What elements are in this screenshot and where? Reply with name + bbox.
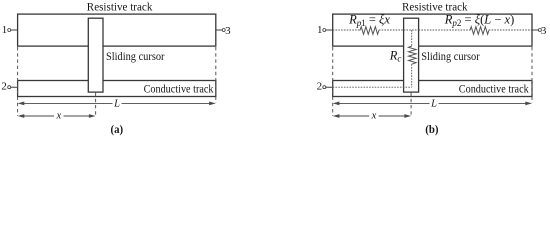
terminal 1 (a): pin label, circle, wire: [2, 24, 18, 36]
svg-text:Conductive track: Conductive track: [459, 81, 529, 95]
svg-text:1: 1: [317, 24, 323, 36]
svg-text:Resistive track: Resistive track: [402, 0, 468, 14]
svg-text:L: L: [113, 99, 120, 110]
svg-text:Sliding cursor: Sliding cursor: [421, 49, 480, 63]
terminal 2 (a): pin label, circle, wire: [1, 81, 17, 93]
dimension L (b): line, arrows, label: [333, 99, 532, 110]
resistive track body (a): [18, 14, 216, 46]
dotted net segment: Rp1 to cursor (b): [379, 29, 404, 31]
dotted net segment: terminal1 to Rp1 (b): [333, 29, 360, 31]
resistor Rp1 (b): [360, 27, 379, 35]
projection dashed line right edge (a): [215, 47, 217, 103]
svg-text:1: 1: [2, 24, 8, 36]
dotted net segment: cursor to Rp2 (b): [419, 29, 470, 31]
conductive track body (b): [333, 81, 532, 97]
dotted net segment: terminal2 to cursor junction (b): [333, 86, 412, 88]
svg-text:(b): (b): [425, 124, 438, 136]
dotted net segment: across cursor (b): [404, 29, 419, 31]
dimension x (a): line, arrows, label: [18, 111, 96, 122]
svg-text:Conductive track: Conductive track: [144, 81, 214, 95]
svg-text:2: 2: [1, 81, 7, 93]
svg-text:3: 3: [541, 25, 547, 37]
svg-text:x: x: [55, 111, 61, 122]
projection dashed line left edge (a): [17, 47, 19, 116]
terminal 2 (b): pin label, circle, wire: [317, 81, 333, 93]
svg-text:3: 3: [225, 25, 231, 37]
dotted net segment: cursor junction down to Rc (b): [411, 30, 413, 46]
svg-text:Sliding cursor: Sliding cursor: [106, 49, 165, 63]
dotted net segment: Rp2 to right edge (b): [489, 29, 532, 31]
resistor Rc (b): [409, 46, 417, 64]
svg-text:L: L: [430, 99, 437, 110]
svg-text:Rc: Rc: [389, 48, 402, 63]
terminal 1 (b): pin label, circle, wire: [317, 24, 333, 36]
sliding cursor body (a): [88, 18, 103, 92]
svg-text:x: x: [371, 111, 377, 122]
svg-text:2: 2: [317, 81, 323, 93]
dimension x (b): line, arrows, label: [333, 111, 411, 122]
svg-text:Rp1 = ξx: Rp1 = ξx: [348, 13, 390, 28]
svg-text:Resistive track: Resistive track: [87, 0, 153, 14]
resistor Rp2 (b): [470, 27, 489, 35]
resistive track body (b): [333, 14, 532, 46]
sliding cursor body (b): [404, 18, 419, 92]
conductive track body (a): [18, 81, 216, 97]
svg-text:(a): (a): [111, 124, 124, 136]
projection dashed line left edge (b): [332, 47, 334, 116]
dimension L (a): line, arrows, label: [18, 99, 216, 110]
terminal 3 (b): wire, circle, pin label: [532, 25, 547, 37]
projection dashed line cursor center (b): [410, 93, 412, 116]
projection dashed line right edge (b): [531, 47, 533, 103]
projection dashed line cursor center (a): [95, 93, 97, 116]
terminal 3 (a): wire, circle, pin label: [216, 25, 231, 37]
dotted net segment: Rc down to conductive junction (b): [411, 64, 413, 87]
